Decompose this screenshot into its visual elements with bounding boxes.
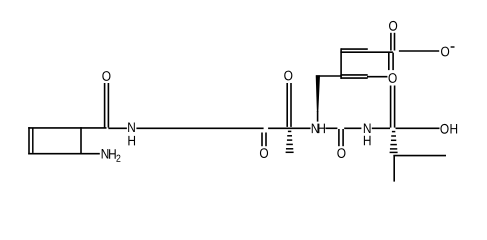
ring2 left edge	[340, 48, 342, 79]
bold wedge bond from CH2 down to N2	[316, 75, 320, 112]
atom label O2 carbonyl oxygen	[260, 148, 268, 158]
hash wedge methyl on C3	[286, 131, 294, 152]
atom label N3 amide hydrogen	[364, 136, 371, 146]
atom label amine nitrogen of NH2	[102, 149, 109, 159]
bond C4 to N3	[344, 127, 361, 129]
atom label ring oxygen	[389, 73, 397, 83]
X to top oxygen double bond	[390, 33, 392, 51]
ring2 bottom edge double bond lower line	[340, 77, 367, 79]
atom label O3 carbonyl oxygen	[284, 71, 292, 81]
ring2 top edge lower line continuing to atom X	[340, 51, 393, 53]
cyclobutene ring left edge double bond outer line	[28, 127, 30, 154]
atom label N1 amide nitrogen	[128, 122, 135, 132]
hash wedge on C5 down to isopropyl CH	[390, 132, 398, 153]
atom label anionic oxygen O-	[441, 47, 449, 57]
atom label N2 amide hydrogen	[318, 124, 325, 133]
long chain bond N1 to C2	[136, 127, 263, 129]
isopropyl methyl bond right	[393, 155, 446, 157]
superscript minus charge	[451, 46, 455, 48]
carbonyl C2=O2 double bond down	[261, 133, 263, 147]
X to ring oxygen double bond	[388, 53, 390, 71]
bond N3 to C5	[372, 127, 390, 129]
cyclobutene ring bottom edge and bond to NH2	[28, 153, 100, 155]
ring2 top edge double bond upper line	[341, 48, 368, 50]
C5 to ring oxygen double bond up	[390, 86, 392, 128]
cyclobutene ring right edge	[80, 127, 82, 154]
atom label amine subscript 2	[116, 155, 120, 162]
carbonyl C4=O4 double bond down	[338, 129, 340, 146]
atom label N3 amide nitrogen	[364, 124, 371, 134]
atom label hydroxyl hydrogen	[450, 124, 457, 134]
atom label O1 carbonyl oxygen	[102, 71, 110, 81]
atom label amine hydrogen of NH2	[109, 149, 116, 159]
bond wedge CH2 to ring2 bottom-left corner	[316, 75, 341, 77]
cyclobutene ring left edge double bond inner line	[32, 128, 34, 153]
cyclobutene ring top edge and bond to carbonyl C1	[28, 127, 106, 129]
bond C1 to N1	[108, 127, 127, 129]
bond N2 to C4	[325, 127, 337, 129]
atom label hydroxyl oxygen	[440, 124, 448, 134]
atom label N1 amide hydrogen	[128, 136, 135, 146]
isopropyl methyl bond down	[393, 155, 395, 182]
carbonyl C3=O3 double bond up	[286, 83, 288, 127]
bond C5 to hydroxyl OH	[396, 127, 440, 129]
bond X to anionic oxygen	[399, 50, 439, 52]
atom label top sulfonate oxygen	[389, 21, 397, 31]
ring2 bottom single bond to ring oxygen	[367, 76, 387, 78]
atom label O4 carbonyl oxygen	[337, 148, 345, 158]
carbonyl C1=O1 double bond	[104, 83, 106, 128]
ring2 bottom edge double bond upper line	[340, 74, 367, 76]
chain bond C2 through C3 to N2	[268, 127, 310, 129]
atom label N2 amide nitrogen	[312, 124, 319, 133]
